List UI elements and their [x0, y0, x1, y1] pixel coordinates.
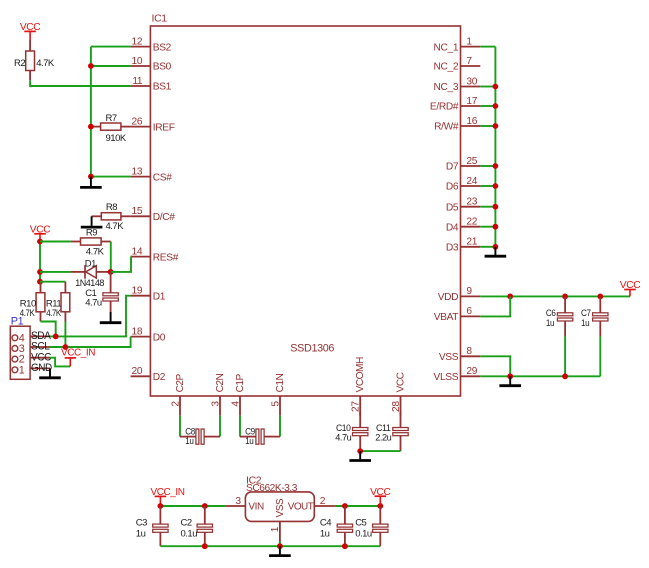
junction node RES#/C1 — [108, 269, 114, 275]
svg-text:D3: D3 — [446, 243, 459, 254]
wire VSS link — [480, 356, 510, 376]
junction VCC-R9 — [37, 239, 43, 245]
IC1 pin 3 C2N — [219, 396, 221, 416]
junction VLSS-C6 — [562, 373, 568, 379]
wire NC_3 to bus — [480, 86, 495, 88]
IC1 pin 7 NC_2 — [461, 65, 481, 67]
IC1 pin 6 VBAT — [461, 315, 481, 317]
svg-text:3: 3 — [235, 496, 241, 507]
junction VCC-D1 — [37, 269, 43, 275]
svg-text:1: 1 — [270, 526, 281, 532]
wire D5 to bus — [480, 206, 495, 208]
power VCC_IN (bottom) — [159, 496, 161, 506]
IC1 pin 11 BS1 — [131, 85, 151, 87]
wire SDA net to pin19 — [50, 296, 131, 337]
svg-text:25: 25 — [466, 156, 477, 167]
ground (right bus) — [494, 247, 496, 255]
svg-text:E/RD#: E/RD# — [430, 102, 459, 113]
svg-text:10: 10 — [132, 56, 143, 67]
svg-text:8: 8 — [466, 346, 472, 357]
junction bus D6 — [493, 183, 499, 189]
svg-text:C3: C3 — [136, 517, 147, 528]
IC1 pin 25 D7 — [461, 165, 481, 167]
svg-text:1u: 1u — [245, 436, 253, 447]
IC1 pin 26 IREF — [131, 126, 151, 128]
wire C1P down — [239, 416, 241, 437]
wire C2N down — [219, 416, 221, 437]
IC1 pin 8 VSS — [461, 355, 481, 357]
svg-text:VIN: VIN — [248, 502, 264, 513]
junction VCC-R10/R11 — [37, 279, 43, 285]
svg-text:R7: R7 — [106, 113, 117, 124]
svg-text:4.7K: 4.7K — [106, 221, 125, 232]
svg-text:GND: GND — [31, 362, 52, 374]
svg-text:D4: D4 — [446, 222, 459, 233]
svg-text:D/C#: D/C# — [153, 212, 175, 223]
IC1 pin 13 CS# — [131, 176, 151, 178]
IC1 pin 2 C2P — [179, 396, 181, 416]
junction C2 — [202, 503, 208, 509]
svg-text:D5: D5 — [446, 202, 459, 213]
svg-text:RES#: RES# — [153, 252, 179, 263]
svg-text:D2: D2 — [153, 372, 166, 383]
svg-text:0.1u: 0.1u — [181, 528, 198, 539]
svg-text:21: 21 — [466, 237, 477, 248]
power VCC (right) — [629, 290, 631, 297]
IC1 pin 18 D0 — [131, 336, 151, 338]
svg-text:VSS: VSS — [439, 352, 459, 363]
svg-text:NC_2: NC_2 — [434, 62, 459, 73]
wire SCL net to pin18 — [50, 337, 131, 347]
svg-text:28: 28 — [391, 401, 402, 412]
svg-text:C1P: C1P — [235, 373, 246, 392]
junction bus R/W# — [493, 123, 499, 129]
wire R/W# to bus — [480, 125, 495, 127]
IC1 pin 21 D3 — [461, 246, 481, 248]
wire to R11 top — [40, 281, 65, 283]
capacitor C8 — [180, 436, 196, 438]
wire R2 to BS1 — [30, 80, 131, 86]
svg-text:16: 16 — [466, 116, 477, 127]
svg-text:1u: 1u — [581, 318, 589, 329]
svg-text:1u: 1u — [320, 528, 330, 539]
power VCC (top left) — [29, 31, 31, 40]
ground (C1) — [110, 312, 112, 322]
IC1 pin 27 VCOMH — [359, 396, 361, 416]
svg-text:23: 23 — [466, 197, 477, 208]
resistor R8 — [92, 215, 102, 217]
svg-text:9: 9 — [466, 286, 472, 297]
wire C6 down — [564, 336, 566, 376]
svg-text:VLSS: VLSS — [434, 372, 459, 383]
IC1 SSD1306 main symbol box — [150, 26, 460, 396]
ground (C10/C11) — [359, 451, 361, 459]
svg-text:27: 27 — [351, 401, 362, 412]
junction VCC C5 — [377, 503, 383, 509]
capacitor C1 — [110, 272, 112, 293]
svg-text:R2: R2 — [14, 58, 25, 69]
svg-text:2.2u: 2.2u — [375, 433, 391, 444]
wire BS0 — [91, 65, 131, 67]
svg-text:D6: D6 — [446, 182, 459, 193]
svg-text:18: 18 — [132, 326, 143, 337]
svg-text:VCC: VCC — [395, 372, 406, 392]
capacitor C2 — [204, 506, 206, 524]
junction VLSS-gnd — [507, 373, 513, 379]
svg-text:VCC: VCC — [20, 22, 40, 33]
IC1 pin 19 D1 — [131, 295, 151, 297]
junction bus D4 — [493, 224, 499, 230]
IC1 pin 1 NC_1 — [461, 46, 481, 48]
capacitor C6 — [564, 296, 566, 312]
junction bus-BS0 — [88, 63, 94, 69]
junction VDD-C7 — [597, 294, 603, 300]
junction bus NC_3 — [493, 84, 499, 90]
junction SDA — [53, 334, 59, 340]
svg-text:SSD1306: SSD1306 — [290, 343, 334, 355]
svg-text:VCC: VCC — [370, 487, 390, 498]
IC1 pin 4 C1P — [239, 396, 241, 416]
ground (CS# bus) — [90, 177, 92, 187]
junction C4 — [342, 503, 348, 509]
power VCC_IN (P1) — [69, 358, 71, 367]
resistor R2 — [29, 40, 31, 51]
wire C7 down — [599, 336, 601, 376]
junction bus-CS# — [88, 174, 94, 180]
IC2 pin 3 VIN — [226, 505, 246, 507]
wire R9 feed — [40, 241, 71, 243]
svg-text:NC_1: NC_1 — [434, 42, 459, 53]
IC1 pin 12 BS2 — [131, 46, 151, 48]
svg-text:D1: D1 — [85, 259, 96, 270]
svg-text:14: 14 — [132, 246, 143, 257]
svg-text:C4: C4 — [320, 517, 331, 528]
svg-text:VOUT: VOUT — [288, 502, 314, 513]
junction rail C4 — [342, 543, 348, 549]
svg-text:29: 29 — [466, 366, 477, 377]
svg-text:19: 19 — [132, 286, 143, 297]
wire VOUT rail — [335, 505, 381, 507]
svg-text:26: 26 — [132, 116, 143, 127]
ground (P1 GND) — [49, 368, 51, 376]
resistor R11 — [64, 282, 66, 293]
power VCC (bottom) — [379, 496, 381, 506]
capacitor C10 — [359, 411, 361, 427]
svg-text:C5: C5 — [355, 517, 366, 528]
capacitor C7 — [599, 296, 601, 312]
wire right bus — [494, 47, 496, 247]
svg-text:910K: 910K — [106, 133, 127, 144]
junction rail VSS — [277, 543, 283, 549]
svg-text:1u: 1u — [136, 528, 146, 539]
wire D3 to bus — [480, 246, 495, 248]
svg-text:D7: D7 — [446, 162, 459, 173]
svg-text:BS2: BS2 — [153, 42, 172, 53]
svg-text:VCC: VCC — [620, 280, 640, 291]
wire VSS to rail — [279, 542, 281, 547]
svg-text:NC_3: NC_3 — [434, 82, 459, 93]
junction C10 gnd — [357, 448, 363, 454]
IC1 pin 14 RES# — [131, 256, 151, 258]
P1 pin 4 SDA — [12, 335, 18, 341]
svg-text:0.1u: 0.1u — [355, 528, 372, 539]
svg-text:17: 17 — [466, 96, 477, 107]
svg-text:R8: R8 — [106, 202, 117, 213]
wire D4 to bus — [480, 226, 495, 228]
wire C10-C11 gnd — [360, 450, 400, 452]
svg-text:VBAT: VBAT — [434, 312, 459, 323]
svg-text:2: 2 — [320, 496, 326, 507]
svg-text:7: 7 — [466, 56, 472, 67]
IC1 pin 22 D4 — [461, 226, 481, 228]
junction SCL — [63, 344, 69, 350]
junction bus D7 — [493, 163, 499, 169]
IC1 pin 17 E/RD# — [461, 105, 481, 107]
svg-text:4: 4 — [230, 401, 241, 407]
svg-text:15: 15 — [132, 206, 143, 217]
svg-text:5: 5 — [270, 401, 281, 407]
wire NC_1 to bus — [480, 46, 495, 48]
svg-text:1N4148: 1N4148 — [75, 278, 104, 288]
svg-text:R/W#: R/W# — [434, 122, 459, 133]
svg-text:20: 20 — [132, 366, 143, 377]
power VCC (mid left) — [39, 234, 41, 242]
wire R9 to node — [110, 242, 112, 272]
IC2 pin 2 VOUT — [314, 505, 335, 507]
svg-text:11: 11 — [132, 76, 143, 87]
IC1 pin 30 NC_3 — [461, 86, 481, 88]
svg-text:1u: 1u — [546, 318, 554, 329]
wire BS2 — [91, 46, 131, 48]
junction rail C2 — [202, 543, 208, 549]
ground (VLSS) — [509, 376, 511, 384]
svg-text:VCC: VCC — [30, 224, 50, 235]
svg-text:D0: D0 — [153, 332, 166, 343]
wire E/RD# to bus — [480, 105, 495, 107]
IC1 pin 23 D5 — [461, 206, 481, 208]
IC1 pin 16 R/W# — [461, 125, 481, 127]
svg-text:C2P: C2P — [175, 373, 186, 392]
resistor R7 — [91, 126, 101, 128]
svg-text:C1N: C1N — [275, 373, 286, 392]
svg-text:1: 1 — [19, 364, 25, 376]
capacitor C3 — [159, 506, 161, 524]
svg-text:3: 3 — [210, 401, 221, 407]
svg-text:VSS: VSS — [275, 498, 286, 517]
svg-text:VCOMH: VCOMH — [355, 357, 366, 392]
IC2 pin 1 VSS — [279, 521, 281, 541]
IC1 pin 20 D2 — [131, 375, 151, 377]
svg-text:4.7u: 4.7u — [85, 298, 102, 309]
svg-text:BS1: BS1 — [153, 82, 172, 93]
IC1 pin 15 D/C# — [131, 215, 151, 217]
IC1 pin 28 VCC — [400, 396, 402, 416]
svg-text:1: 1 — [466, 36, 472, 47]
wire VCC pin to VCC_IN — [50, 358, 70, 367]
svg-text:24: 24 — [466, 176, 477, 187]
svg-text:4.7K: 4.7K — [46, 308, 62, 319]
IC1 pin 29 VLSS — [461, 375, 481, 377]
svg-text:13: 13 — [132, 166, 143, 177]
svg-text:VCC_IN: VCC_IN — [151, 487, 185, 498]
ground (R8) — [91, 216, 93, 226]
svg-text:IREF: IREF — [153, 122, 175, 133]
svg-text:IC1: IC1 — [152, 13, 168, 25]
diode D1 1N4148 — [71, 271, 86, 273]
svg-text:CS#: CS# — [153, 172, 172, 183]
wire R11 to SCL — [64, 322, 66, 348]
wire D7 to bus — [480, 165, 495, 167]
wire VBAT link — [480, 296, 510, 316]
wire VLSS rail — [480, 375, 600, 377]
wire RES# link — [111, 257, 131, 272]
svg-text:VCC_IN: VCC_IN — [61, 348, 95, 359]
svg-text:C2N: C2N — [215, 373, 226, 392]
junction VCC_IN C3 — [158, 503, 164, 509]
IC1 pin 10 BS0 — [131, 65, 151, 67]
wire C2P down — [179, 416, 181, 437]
P1 pin 3 SCL — [12, 346, 18, 352]
svg-text:VDD: VDD — [438, 292, 458, 303]
svg-text:4.7u: 4.7u — [335, 433, 351, 444]
P1 pin 2 VCC — [12, 356, 18, 362]
ground (IC2) — [279, 546, 281, 554]
svg-text:C2: C2 — [181, 517, 192, 528]
svg-text:4.7K: 4.7K — [36, 58, 55, 69]
capacitor C5 — [379, 506, 381, 524]
wire D1 anode feed — [40, 271, 71, 273]
IC1 pin 5 C1N — [279, 396, 281, 416]
wire R10 to SDA — [41, 322, 56, 337]
capacitor C4 — [344, 506, 346, 524]
IC1 pin 24 D6 — [461, 185, 481, 187]
junction bus D3 — [493, 244, 499, 250]
svg-text:6: 6 — [466, 306, 472, 317]
junction bus-R7 — [88, 124, 94, 130]
junction VDD-C6 — [562, 294, 568, 300]
svg-text:30: 30 — [466, 76, 477, 87]
wire D6 to bus — [480, 185, 495, 187]
svg-text:1u: 1u — [185, 436, 193, 447]
resistor R10 — [40, 282, 42, 293]
capacitor C11 — [400, 411, 402, 427]
capacitor C9 — [240, 436, 256, 438]
IC1 pin 9 VDD — [461, 295, 481, 297]
wire bottom rail — [160, 545, 380, 547]
svg-text:BS0: BS0 — [153, 62, 172, 73]
svg-text:R9: R9 — [86, 228, 97, 239]
junction VDD-VBAT — [507, 294, 513, 300]
wire bus BS2/BS0/CS# — [90, 47, 92, 177]
wire C1N down — [279, 416, 281, 437]
wire VDD rail — [480, 295, 630, 297]
wire VCC_IN rail — [160, 505, 225, 507]
wire CS# — [91, 176, 131, 178]
resistor R9 — [71, 241, 81, 243]
wire VCC column — [39, 242, 41, 282]
svg-text:12: 12 — [132, 36, 143, 47]
junction bus D5 — [493, 204, 499, 210]
svg-text:4.7K: 4.7K — [86, 247, 105, 258]
svg-text:2: 2 — [170, 401, 181, 407]
svg-text:D1: D1 — [153, 291, 166, 302]
svg-text:22: 22 — [466, 217, 477, 228]
junction bus E/RD# — [493, 103, 499, 109]
P1 pin 1 GND — [12, 367, 18, 373]
